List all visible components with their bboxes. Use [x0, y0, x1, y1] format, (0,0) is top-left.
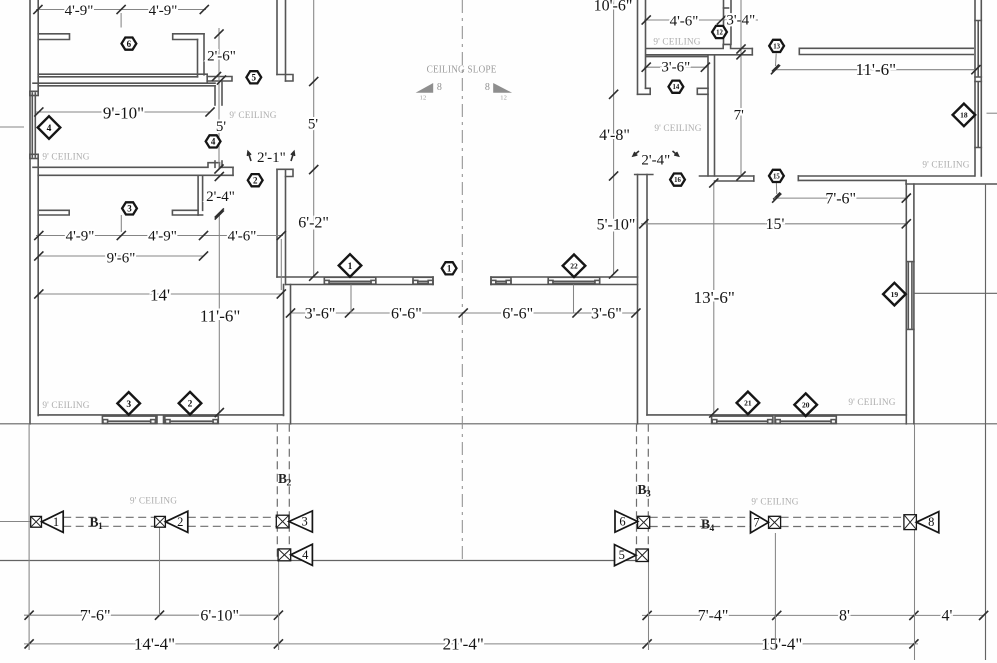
svg-text:10'-6": 10'-6"	[594, 0, 633, 14]
post marker 8	[904, 515, 917, 530]
svg-text:6'-10": 6'-10"	[200, 607, 239, 624]
svg-text:4'-9": 4'-9"	[66, 228, 95, 244]
svg-text:3'-6": 3'-6"	[305, 305, 336, 322]
east exterior wall inner	[974, 0, 976, 176]
room A left closet stub	[38, 34, 69, 40]
right corridor wall west face	[637, 0, 639, 94]
marker hexagon 1	[442, 262, 457, 274]
left unit south window 1	[102, 416, 155, 423]
svg-text:2: 2	[188, 400, 193, 410]
right corridor wall east face	[645, 0, 647, 88]
dim line 4'-9 4'-9 4'-6 row	[36, 235, 283, 237]
svg-text:8: 8	[437, 82, 442, 93]
svg-text:22: 22	[570, 262, 578, 271]
svg-text:2'-4": 2'-4"	[206, 189, 235, 205]
room B east wall outer	[221, 81, 223, 105]
marker hexagon 2	[248, 174, 263, 186]
marker diamond 1	[339, 254, 362, 277]
left unit front wall east cap	[432, 277, 434, 285]
svg-text:11'-6": 11'-6"	[200, 306, 241, 325]
svg-text:11'-6": 11'-6"	[856, 60, 897, 79]
dim line porch row	[291, 312, 636, 314]
living room north stub left	[38, 210, 69, 215]
right unit front wall west cap	[490, 277, 492, 285]
svg-text:15: 15	[773, 173, 780, 180]
bath stub right	[697, 88, 708, 94]
corridor west wall upper seg inner	[276, 0, 278, 75]
marker diamond 22	[563, 255, 586, 278]
marker hexagon 6	[122, 38, 137, 50]
closet jamb	[724, 7, 729, 9]
svg-text:1: 1	[447, 264, 452, 274]
svg-text:3'-6": 3'-6"	[661, 60, 690, 76]
svg-text:6'-6": 6'-6"	[502, 305, 533, 322]
svg-text:6'-6": 6'-6"	[391, 305, 422, 322]
svg-text:18: 18	[960, 111, 968, 120]
svg-text:12: 12	[716, 29, 723, 36]
living east wall inner	[905, 184, 907, 424]
window center ext right	[573, 285, 575, 314]
svg-text:4'-9": 4'-9"	[149, 3, 178, 19]
post marker 7	[769, 516, 781, 528]
left unit east wall outer	[290, 285, 292, 424]
lower horizontal reference line	[0, 560, 636, 562]
room A east wall outer	[203, 34, 205, 75]
marker hexagon 4	[206, 135, 221, 147]
right corridor wall bottom stub	[638, 88, 651, 94]
leader to diamond4 west	[0, 126, 24, 128]
ext line marker8 down	[914, 424, 916, 660]
svg-text:3: 3	[301, 515, 307, 529]
west exterior wall outer face	[29, 0, 31, 424]
east exterior wall outer	[980, 0, 982, 176]
beam B4 dashed pair	[650, 517, 904, 526]
corridor west wall lower seg outer	[285, 169, 287, 284]
room A south band jog	[204, 74, 207, 83]
marker diamond 3	[117, 392, 140, 415]
marker hexagon 3	[122, 202, 137, 214]
svg-text:2'-1": 2'-1"	[257, 150, 286, 166]
svg-text:13: 13	[773, 43, 780, 50]
dim line bottom right row1	[642, 614, 984, 616]
hall wall pair below room B	[198, 177, 203, 216]
left unit south wall inner face	[38, 414, 283, 416]
dim line 4'-6/3'-4 right top	[644, 19, 758, 21]
living west wall inner	[646, 175, 648, 415]
svg-text:9' CEILING: 9' CEILING	[654, 124, 701, 134]
living room north stub right	[172, 210, 198, 215]
room B south wall face 1 with notch	[33, 163, 233, 168]
room B south wall face 2	[38, 174, 233, 176]
right hall wall pair	[708, 56, 715, 177]
svg-text:9'-6": 9'-6"	[107, 250, 136, 266]
west wall window jamb top	[30, 91, 38, 95]
west wall window jamb bottom	[30, 154, 38, 158]
svg-text:2: 2	[287, 479, 292, 489]
corridor west wall lower seg inner	[276, 169, 278, 277]
left unit front wall top face	[277, 276, 433, 278]
svg-text:4'-8": 4'-8"	[599, 127, 630, 144]
svg-text:3'-6": 3'-6"	[591, 305, 622, 322]
dim line 11'-6 right	[773, 69, 977, 71]
svg-text:14: 14	[673, 84, 680, 91]
marker diamond 2	[179, 392, 202, 415]
post marker 4	[278, 549, 291, 561]
dim line bottom row2	[24, 643, 918, 645]
west wall window glazing	[31, 93, 33, 157]
svg-text:5': 5'	[216, 119, 227, 135]
marker diamond 20	[794, 393, 817, 416]
dim line 9'-10	[36, 111, 210, 113]
svg-text:4: 4	[47, 124, 52, 134]
hall wall bottom cap	[198, 214, 203, 216]
svg-text:CEILING SLOPE: CEILING SLOPE	[427, 65, 497, 76]
leader to marker1 left edge	[0, 521, 31, 523]
svg-text:16: 16	[674, 177, 681, 184]
window center ext left	[350, 285, 352, 314]
hex13 leader	[775, 54, 778, 67]
marker hexagon 13	[769, 40, 784, 52]
dim line 9'-6	[39, 255, 204, 257]
ext line marker2 down	[159, 528, 161, 616]
corridor wall lower top cap	[277, 169, 293, 176]
hex15 leader	[775, 183, 777, 194]
svg-text:9' CEILING: 9' CEILING	[42, 401, 89, 411]
ceiling slope arrow right	[493, 83, 512, 93]
dim ticks 2'-4 left	[215, 172, 224, 181]
right front window large	[548, 277, 600, 284]
corridor wall upper end cap	[277, 75, 293, 82]
svg-text:12: 12	[420, 94, 427, 101]
room A south wall face 1	[38, 73, 204, 75]
living west wall outer	[637, 175, 639, 424]
marker diamond 4	[38, 116, 61, 139]
svg-text:7'-4": 7'-4"	[698, 608, 729, 625]
porch east line	[985, 184, 987, 660]
svg-text:7': 7'	[734, 107, 745, 123]
right south window 2	[775, 416, 836, 423]
svg-text:9' CEILING: 9' CEILING	[42, 153, 89, 163]
dim line 15'	[641, 223, 908, 225]
corridor west wall upper seg outer	[285, 0, 287, 81]
svg-text:14': 14'	[150, 286, 170, 305]
svg-text:20: 20	[802, 400, 810, 409]
svg-text:19: 19	[891, 290, 899, 299]
living north wall opening cap right	[797, 176, 799, 180]
room B north wall face 1	[33, 82, 215, 84]
ext line 4'-6 to 14'	[280, 239, 282, 290]
bedroom1 half wall top	[799, 48, 973, 54]
beam B1 dashed pair	[63, 517, 276, 526]
vertical dash-dot centerline between units	[461, 0, 463, 561]
room B north wall face 2	[38, 85, 215, 87]
left unit front wall bottom face	[286, 284, 434, 286]
svg-text:14'-4": 14'-4"	[134, 634, 175, 653]
post marker 6	[638, 516, 650, 528]
svg-text:3: 3	[646, 490, 651, 500]
B2 dashed verticals	[276, 424, 278, 561]
dim line 14'	[39, 293, 281, 295]
svg-text:8': 8'	[839, 608, 850, 625]
ext line B2 down	[278, 561, 280, 650]
bedroom2 north wall face2	[647, 54, 753, 56]
room A south wall face 2	[38, 76, 197, 78]
dim line vertical 2'-6 / 5' left	[218, 28, 220, 169]
west exterior wall inner face upper	[37, 0, 39, 93]
svg-text:5: 5	[252, 73, 257, 83]
right front window small	[491, 277, 511, 284]
ground line across full width (front wall face)	[0, 423, 997, 425]
svg-text:4'-6": 4'-6"	[670, 13, 699, 29]
marker hexagon 15	[769, 170, 784, 182]
svg-text:2: 2	[253, 175, 258, 185]
right unit front wall bottom face	[491, 284, 638, 286]
east wall window jambs	[975, 21, 981, 148]
svg-text:5: 5	[619, 548, 625, 562]
marker diamond 19	[883, 283, 906, 306]
marker hexagon 14	[669, 81, 684, 93]
svg-text:9' CEILING: 9' CEILING	[653, 38, 700, 48]
ext line B3 down	[648, 562, 650, 650]
left unit south window 2	[165, 416, 219, 423]
svg-text:1: 1	[98, 522, 103, 532]
room B east wall inner	[214, 86, 216, 105]
room divider top right	[647, 56, 708, 58]
svg-text:6: 6	[619, 515, 625, 529]
svg-text:7: 7	[753, 515, 759, 529]
marker hexagon 16	[670, 174, 685, 186]
svg-text:13'-6": 13'-6"	[694, 288, 735, 307]
svg-text:1: 1	[53, 515, 59, 529]
room B south wall end cap	[232, 167, 234, 175]
svg-text:4'-6": 4'-6"	[228, 228, 257, 244]
svg-text:5': 5'	[308, 117, 319, 133]
marker diamond 18	[953, 104, 976, 127]
living north wall opening cap left	[753, 176, 755, 181]
dim line vertical 13'-6	[713, 183, 715, 413]
svg-text:12: 12	[500, 94, 507, 101]
living north wall face2 left	[715, 180, 754, 182]
living west wall cap	[635, 174, 653, 176]
svg-text:7'-6": 7'-6"	[825, 190, 856, 207]
svg-text:8: 8	[928, 515, 934, 529]
porch line right mid	[914, 292, 997, 294]
svg-text:4'-9": 4'-9"	[148, 228, 177, 244]
post marker 5	[636, 549, 648, 562]
dim line vertical 10'-6/4'-8/5'-10	[613, 0, 615, 274]
left unit front window small	[413, 277, 433, 284]
svg-text:9' CEILING: 9' CEILING	[922, 160, 969, 170]
post marker 1	[31, 516, 42, 527]
living north wall face1 left	[700, 175, 754, 177]
living north wall face1 right	[798, 175, 974, 177]
left unit front window large	[324, 277, 376, 284]
room A east wall inner	[197, 40, 199, 77]
svg-text:4: 4	[211, 137, 216, 147]
svg-text:15': 15'	[766, 216, 785, 233]
living south wall inner face	[647, 414, 906, 416]
svg-text:4: 4	[302, 548, 309, 562]
post marker 2	[155, 516, 166, 527]
dim line 4'-9 + 4'-9 top-left	[36, 9, 206, 11]
bedroom2 north wall face1 with notch	[647, 44, 753, 48]
svg-text:1: 1	[348, 262, 353, 272]
svg-text:5'-10": 5'-10"	[597, 217, 636, 234]
svg-text:4: 4	[710, 524, 715, 534]
dim line 7'-6 right	[774, 197, 908, 199]
svg-text:6'-2": 6'-2"	[298, 215, 329, 232]
left unit south door mullion	[157, 416, 164, 423]
room A right closet stub	[173, 34, 204, 40]
svg-text:4'-9": 4'-9"	[65, 3, 94, 19]
svg-text:9'-10": 9'-10"	[103, 103, 144, 122]
svg-text:9' CEILING: 9' CEILING	[130, 497, 177, 507]
post marker 3	[276, 515, 289, 528]
svg-text:3: 3	[126, 400, 131, 410]
svg-text:2'-4": 2'-4"	[641, 152, 670, 168]
svg-text:9' CEILING: 9' CEILING	[751, 498, 798, 508]
dim line 3'-6 right	[644, 66, 707, 68]
dim line vertical 11'-6 left	[218, 213, 220, 413]
leader to diamond18 east	[987, 112, 997, 114]
svg-text:8: 8	[485, 82, 490, 93]
marker hexagon 5	[246, 71, 261, 83]
dim line vertical 5' / 6'-2 corridor	[313, 0, 315, 276]
svg-text:2'-6": 2'-6"	[207, 48, 236, 64]
closet wall pair top right	[724, 0, 732, 44]
svg-text:3: 3	[127, 204, 132, 214]
right unit front wall top face	[491, 276, 638, 278]
B3 dashed verticals	[636, 424, 638, 561]
dim line vertical 7'	[740, 0, 742, 176]
svg-text:21: 21	[744, 399, 752, 408]
living east wall outer	[913, 184, 915, 424]
svg-text:9' CEILING: 9' CEILING	[848, 398, 895, 408]
marker hexagon 12	[712, 26, 727, 38]
svg-text:7'-6": 7'-6"	[80, 607, 111, 624]
right south window 1	[712, 416, 773, 423]
svg-text:21'-4": 21'-4"	[443, 634, 484, 653]
svg-text:6: 6	[127, 39, 132, 49]
left unit east wall inner	[283, 285, 285, 416]
dim line bottom left row1	[24, 614, 280, 616]
west exterior wall inner face lower	[37, 157, 39, 416]
living north wall face2 right	[798, 179, 906, 181]
ext line left wall down	[28, 424, 30, 650]
svg-text:15'-4": 15'-4"	[761, 634, 802, 653]
svg-text:2: 2	[177, 515, 183, 529]
living east window	[906, 262, 914, 330]
marker diamond 21	[737, 392, 760, 415]
svg-text:9' CEILING: 9' CEILING	[229, 111, 276, 121]
ext line marker7 down	[774, 533, 776, 650]
bedroom2 wall end cap	[751, 49, 753, 55]
ceiling slope arrow left	[416, 83, 434, 93]
svg-text:4': 4'	[941, 608, 952, 625]
closet stub right of room B wall	[207, 77, 232, 82]
